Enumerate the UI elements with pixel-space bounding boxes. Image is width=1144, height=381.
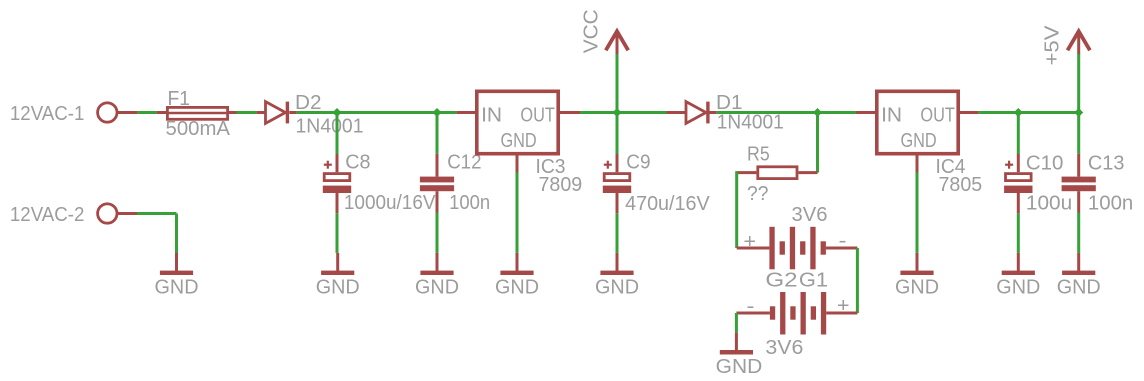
svg-text:GND: GND bbox=[595, 276, 639, 298]
svg-text:470u/16V: 470u/16V bbox=[625, 193, 710, 215]
svg-text:C13: C13 bbox=[1088, 152, 1125, 174]
svg-text:GND: GND bbox=[155, 276, 199, 298]
svg-text:GND: GND bbox=[495, 276, 539, 298]
svg-text:C10: C10 bbox=[1026, 152, 1064, 174]
svg-text:OUT: OUT bbox=[520, 104, 555, 126]
svg-text:+5V: +5V bbox=[1042, 25, 1064, 66]
svg-text:1N4001: 1N4001 bbox=[296, 115, 364, 137]
svg-text:G1: G1 bbox=[799, 269, 828, 291]
svg-text:GND: GND bbox=[415, 276, 459, 298]
svg-text:1000u/16V: 1000u/16V bbox=[344, 192, 436, 214]
svg-text:7809: 7809 bbox=[539, 174, 583, 196]
svg-text:100u: 100u bbox=[1026, 193, 1072, 215]
svg-text:100n: 100n bbox=[449, 192, 490, 214]
svg-text:OUT: OUT bbox=[920, 104, 955, 126]
svg-text:1N4001: 1N4001 bbox=[717, 112, 784, 134]
svg-text:GND: GND bbox=[1057, 276, 1101, 298]
svg-text:100n: 100n bbox=[1088, 193, 1133, 215]
svg-text:IN: IN bbox=[481, 104, 502, 126]
svg-text:GND: GND bbox=[716, 356, 763, 378]
svg-text:IN: IN bbox=[881, 104, 902, 126]
svg-text:D2: D2 bbox=[295, 92, 322, 114]
svg-text:G2: G2 bbox=[765, 269, 797, 291]
svg-text:R5: R5 bbox=[747, 144, 770, 166]
svg-text:3V6: 3V6 bbox=[792, 204, 828, 226]
svg-text:GND: GND bbox=[895, 276, 939, 298]
svg-text:+: + bbox=[744, 231, 757, 253]
svg-text:GND: GND bbox=[316, 276, 360, 298]
svg-text:7805: 7805 bbox=[939, 174, 983, 196]
svg-text:C8: C8 bbox=[345, 151, 370, 173]
svg-text:??: ?? bbox=[747, 183, 768, 205]
svg-text:3V6: 3V6 bbox=[765, 337, 803, 359]
svg-text:12VAC-2: 12VAC-2 bbox=[10, 204, 85, 226]
svg-text:GND: GND bbox=[996, 276, 1040, 298]
svg-text:C9: C9 bbox=[626, 152, 650, 174]
svg-text:VCC: VCC bbox=[581, 9, 603, 53]
svg-text:GND: GND bbox=[901, 130, 937, 152]
svg-text:D1: D1 bbox=[716, 92, 743, 114]
svg-text:GND: GND bbox=[501, 130, 537, 152]
svg-text:500mA: 500mA bbox=[166, 118, 231, 140]
svg-text:12VAC-1: 12VAC-1 bbox=[10, 103, 85, 125]
